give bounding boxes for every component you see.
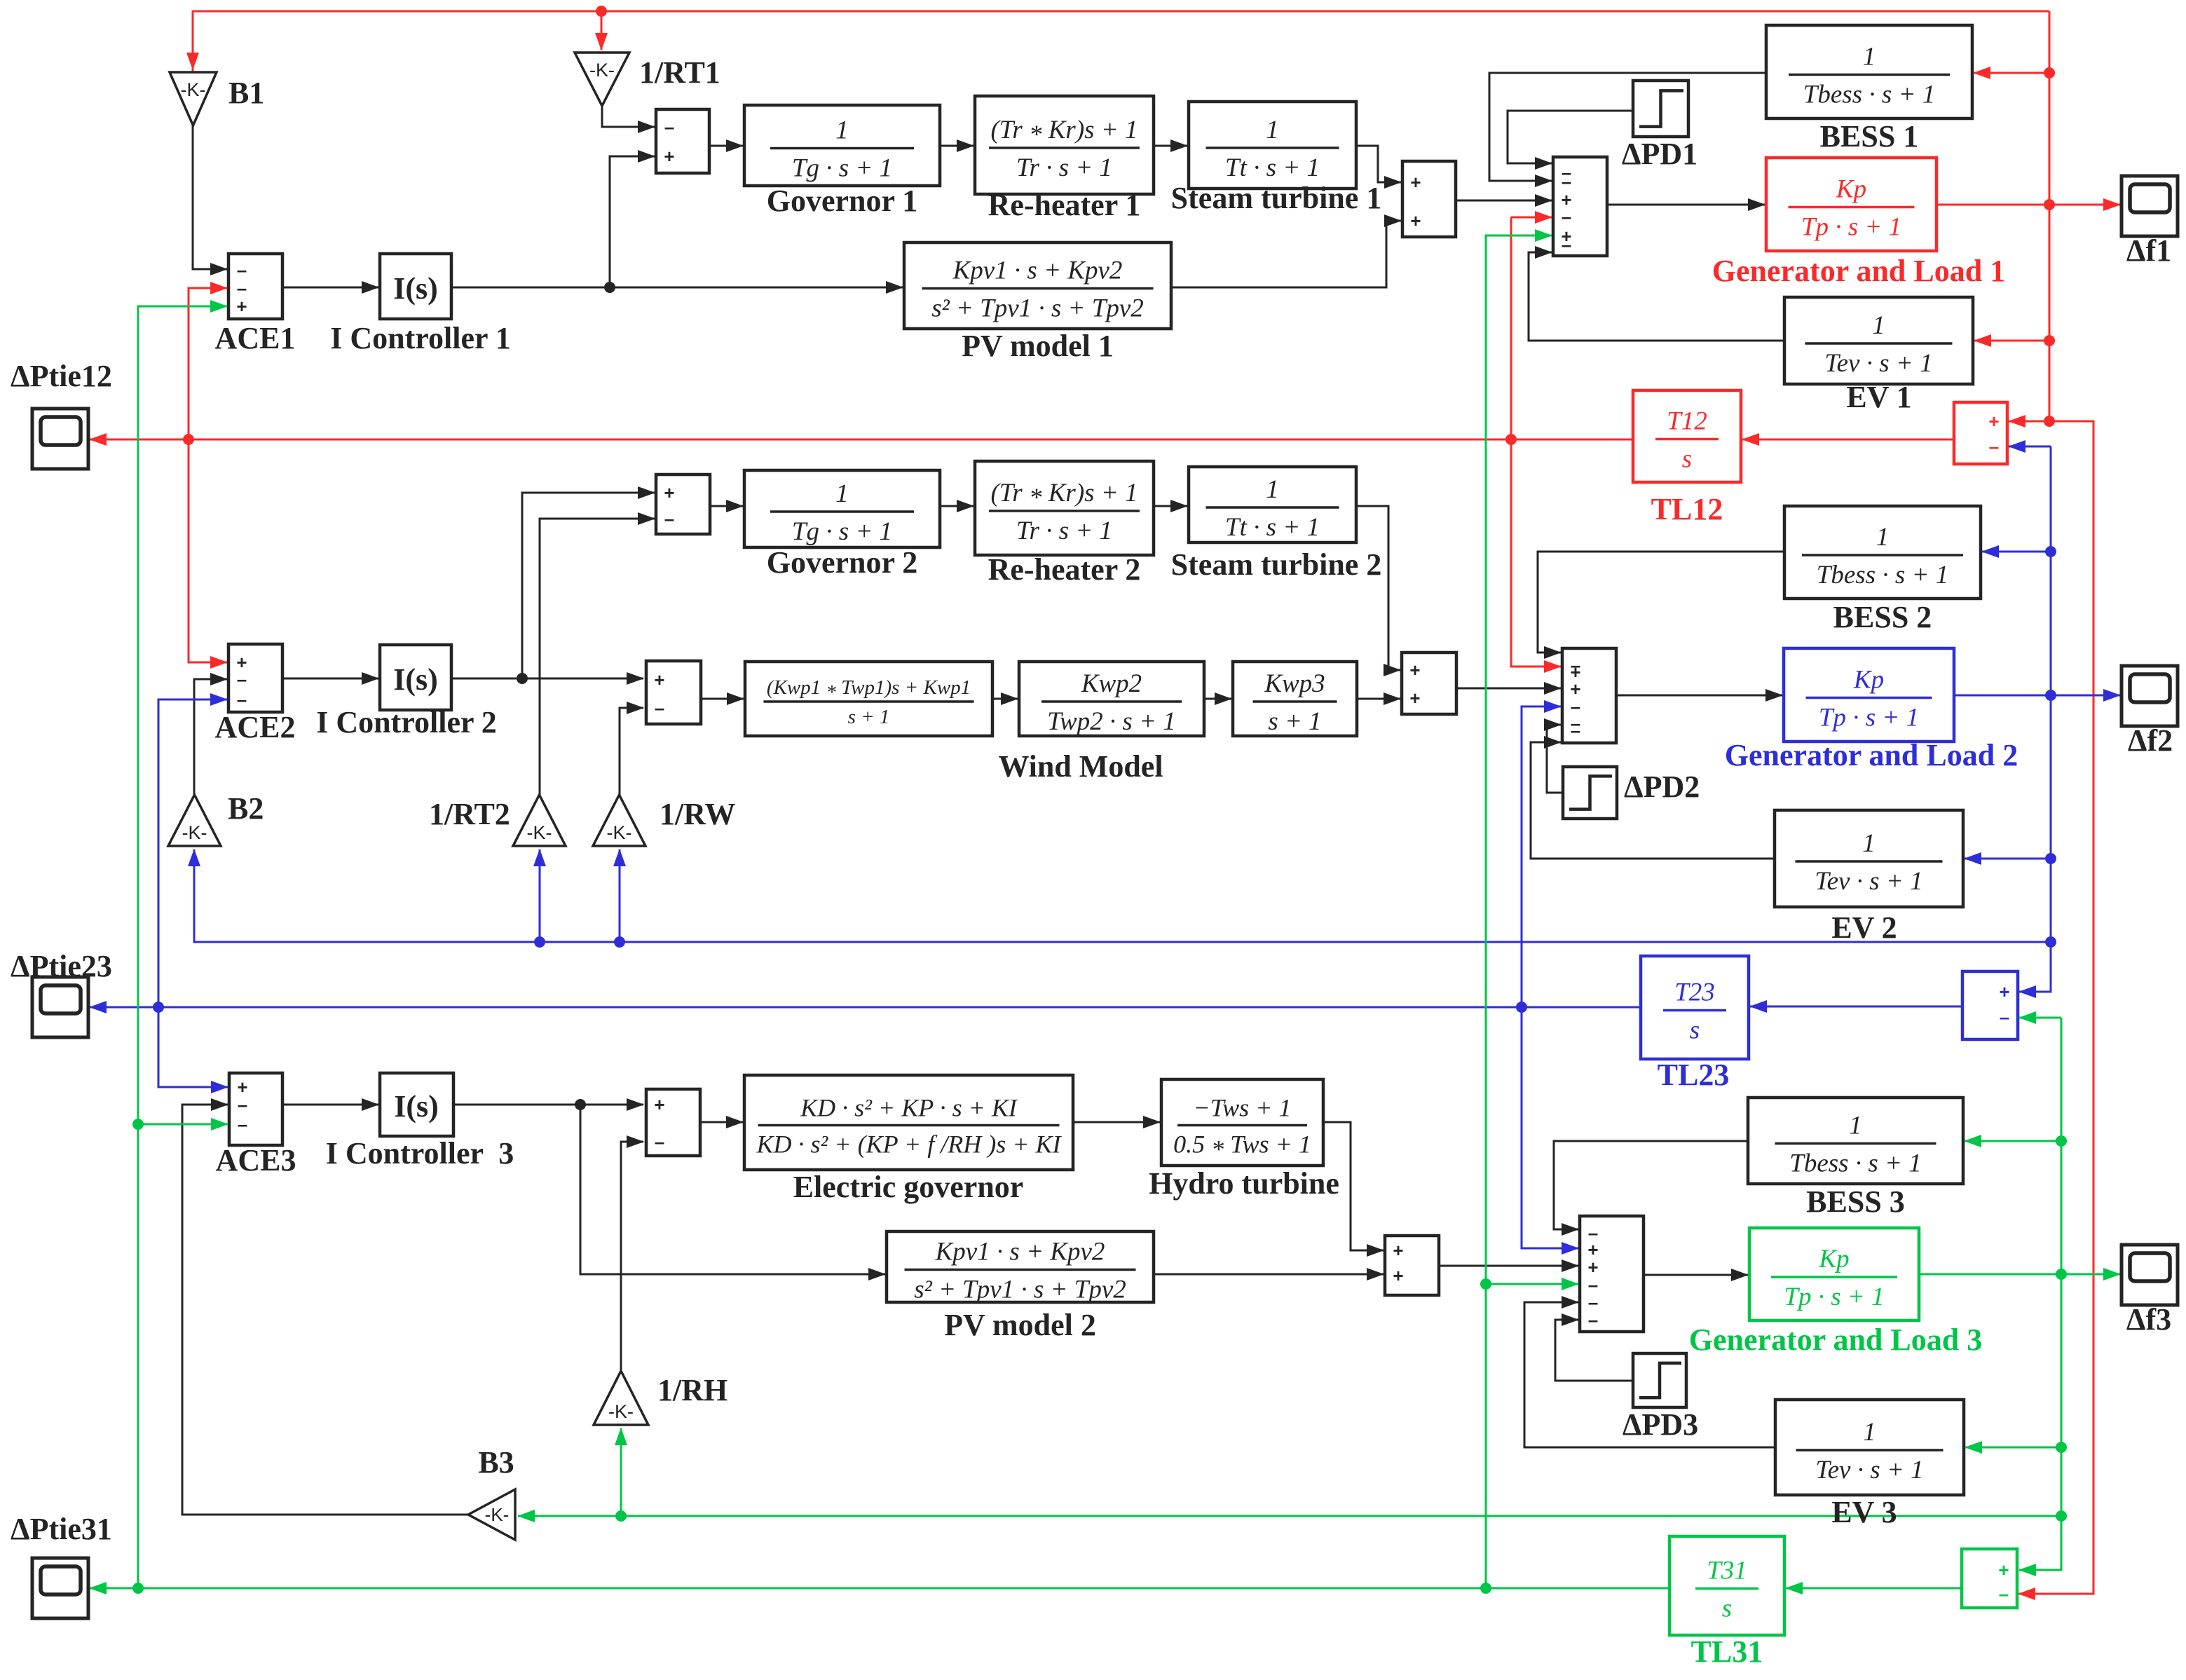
svg-text:s + 1: s + 1 xyxy=(848,706,890,728)
label Generator and Load 2 xyxy=(1725,738,2018,772)
svg-text:+: + xyxy=(1999,981,2009,1002)
wire Steam turbine 2 to sum S2b xyxy=(1356,506,1400,670)
svg-text:1/RT2: 1/RT2 xyxy=(429,797,510,831)
label Df1 xyxy=(2126,233,2171,268)
svg-text:ΔPD3: ΔPD3 xyxy=(1623,1407,1698,1442)
wire sum S1a to Governor 1 xyxy=(709,145,743,147)
wire I Controller 3 to hydro sum xyxy=(453,1104,643,1106)
svg-text:Tbess · s + 1: Tbess · s + 1 xyxy=(1817,561,1948,589)
svg-text:EV 3: EV 3 xyxy=(1831,1495,1897,1529)
sum TL12 tie sum xyxy=(1954,402,2007,464)
block DPD2 step xyxy=(1563,767,1617,819)
svg-text:ACE1: ACE1 xyxy=(215,321,296,355)
block Generator and Load 2 xyxy=(1784,648,1954,742)
wire green branch to ACE3 minus xyxy=(138,1124,228,1126)
svg-text:1: 1 xyxy=(1862,829,1876,858)
label 1/RT1 xyxy=(639,55,720,90)
node junction Df1 on red vertical xyxy=(2044,199,2055,210)
wire I Controller 2 to wind sum xyxy=(451,678,643,680)
label DPD3 xyxy=(1623,1407,1698,1442)
wire sum SA1 to Generator and Load 1 xyxy=(1607,204,1765,206)
wire green into BESS 3 xyxy=(1965,1140,2061,1142)
svg-text:1: 1 xyxy=(1872,311,1885,340)
gain 1/RH triangle xyxy=(594,1371,648,1425)
svg-text:1: 1 xyxy=(1876,523,1890,552)
block EV 3 xyxy=(1775,1400,1964,1529)
wire DPD1 to sum SA1 xyxy=(1508,111,1633,163)
svg-text:1: 1 xyxy=(1863,1418,1876,1447)
svg-text:+: + xyxy=(654,1094,664,1115)
wire Re-heater 1 to Steam turbine 1 xyxy=(1154,145,1187,147)
scope Df3 xyxy=(2122,1245,2178,1305)
svg-text:Kpv1 · s + Kpv2: Kpv1 · s + Kpv2 xyxy=(952,257,1123,285)
label DPD1 xyxy=(1622,137,1697,171)
label TL12 xyxy=(1651,492,1723,526)
sum TL31 tie sum xyxy=(1962,1549,2017,1608)
block DPD1 step xyxy=(1633,81,1688,137)
wire sum S3a to Electric governor xyxy=(700,1121,743,1124)
node junction green 1/RH branch xyxy=(615,1510,627,1522)
gain B1 triangle xyxy=(170,72,217,125)
sum S2a governor2 input xyxy=(656,474,710,534)
wire blue into TL12 minus xyxy=(2009,446,2051,448)
wire TL31 output line to scope DPtie31 xyxy=(90,1587,1669,1590)
wire DPD3 to sum SA3 xyxy=(1555,1320,1633,1381)
svg-text:T12: T12 xyxy=(1667,407,1707,436)
label B3 xyxy=(478,1445,514,1480)
wire red into BESS 1 xyxy=(1974,72,2049,74)
block Electric governor xyxy=(744,1075,1073,1204)
svg-text:-K-: -K- xyxy=(527,822,552,843)
wire red vertical right area1 xyxy=(2049,11,2051,421)
svg-text:-K-: -K- xyxy=(589,60,615,81)
svg-text:ACE2: ACE2 xyxy=(215,710,296,744)
node junction green to ACE3 xyxy=(132,1119,144,1130)
wire Generator and Load 3 to scope Df3 xyxy=(1919,1273,2120,1276)
svg-text:B3: B3 xyxy=(478,1445,514,1480)
svg-text:ΔPD2: ΔPD2 xyxy=(1624,770,1700,804)
label B1 xyxy=(228,76,264,110)
wire BESS 3 output to sum SA3 xyxy=(1554,1141,1748,1229)
svg-text:-K-: -K- xyxy=(182,822,207,843)
svg-text:s: s xyxy=(1690,1016,1700,1045)
svg-text:I(s): I(s) xyxy=(393,662,438,697)
node junction green BESS3 xyxy=(2056,1135,2067,1147)
svg-text:–: – xyxy=(1562,206,1571,227)
svg-text:–: – xyxy=(655,697,664,718)
wire Generator and Load 2 to scope Df2 xyxy=(1954,695,2120,697)
svg-text:Tev · s + 1: Tev · s + 1 xyxy=(1815,867,1922,896)
svg-text:1: 1 xyxy=(835,479,849,508)
sum S3b hydro plus PV xyxy=(1385,1236,1439,1295)
gain B2 triangle xyxy=(168,795,221,846)
label 1/RH xyxy=(657,1373,727,1407)
svg-text:PV model 1: PV model 1 xyxy=(962,329,1114,363)
svg-text:−Tws + 1: −Tws + 1 xyxy=(1194,1094,1292,1122)
wire DPD2 to sum SA2 xyxy=(1547,725,1563,793)
svg-text:1/RW: 1/RW xyxy=(660,797,735,831)
wire blue into BESS 2 xyxy=(1982,551,2051,553)
svg-text:0.5 * Tws + 1: 0.5 * Tws + 1 xyxy=(1173,1131,1311,1163)
svg-text:–: – xyxy=(664,116,674,137)
wire green feedback line area3 xyxy=(518,1515,2061,1517)
wire red TL12 plus input xyxy=(2009,421,2049,423)
svg-text:Δf2: Δf2 xyxy=(2128,723,2173,758)
svg-text:B1: B1 xyxy=(228,76,264,110)
svg-text:ACE3: ACE3 xyxy=(216,1143,296,1177)
svg-text:T23: T23 xyxy=(1674,978,1715,1007)
svg-text:–: – xyxy=(1999,1583,2009,1604)
svg-text:I Controller 1: I Controller 1 xyxy=(330,321,510,355)
wire Re-heater 2 to Steam turbine 2 xyxy=(1154,505,1187,507)
wire B2 output to ACE2 xyxy=(194,679,227,795)
wire blue x2171 down to SA3 plus xyxy=(1522,1007,1578,1248)
wire green x2120 up to SA1 and SA3 xyxy=(1486,235,1552,1588)
svg-text:Tg · s + 1: Tg · s + 1 xyxy=(792,517,892,546)
block Re-heater 2 xyxy=(975,461,1154,587)
wire top red feedback line (Df1 to B1 and 1/RT1) xyxy=(193,11,2049,72)
label Wind Model xyxy=(998,749,1163,784)
wire green into 1/RH xyxy=(620,1428,622,1516)
block Steam turbine 1 xyxy=(1171,102,1382,215)
svg-text:I(s): I(s) xyxy=(393,271,438,306)
label Df2 xyxy=(2128,723,2173,758)
svg-text:Kwp2: Kwp2 xyxy=(1081,669,1142,698)
svg-text:ΔPtie31: ΔPtie31 xyxy=(11,1512,112,1546)
svg-text:–: – xyxy=(655,1131,664,1152)
wire ACE1 to I Controller 1 xyxy=(282,287,378,289)
svg-text:s² + Tpv1 · s + Tpv2: s² + Tpv1 · s + Tpv2 xyxy=(931,294,1144,323)
svg-text:KD · s² + (KP + f /RH )s + KI: KD · s² + (KP + f /RH )s + KI xyxy=(756,1131,1062,1159)
label 1/RW xyxy=(660,797,735,831)
label Generator and Load 1 xyxy=(1712,254,2005,288)
svg-text:Wind Model: Wind Model xyxy=(998,749,1163,784)
block Steam turbine 2 xyxy=(1171,467,1382,582)
scope DPtie23 xyxy=(32,977,88,1037)
svg-text:+: + xyxy=(664,482,674,503)
block BESS 3 xyxy=(1748,1098,1963,1219)
svg-text:1: 1 xyxy=(1863,43,1876,71)
label ACE3 xyxy=(216,1143,296,1177)
svg-text:I Controller 2: I Controller 2 xyxy=(316,705,496,739)
node junction blue BESS2 xyxy=(2045,546,2056,557)
svg-text:Steam turbine 2: Steam turbine 2 xyxy=(1171,547,1382,582)
block wind Kwp2 xyxy=(1019,662,1204,736)
svg-text:Tg · s + 1: Tg · s + 1 xyxy=(792,154,892,183)
svg-text:EV 1: EV 1 xyxy=(1846,380,1911,414)
svg-text:Electric governor: Electric governor xyxy=(793,1170,1024,1204)
scope Df1 xyxy=(2122,176,2178,236)
svg-text:+: + xyxy=(1988,411,1999,432)
svg-text:–: – xyxy=(238,1114,247,1135)
svg-text:-K-: -K- xyxy=(608,1401,634,1422)
svg-text:I Controller 3: I Controller 3 xyxy=(326,1136,514,1170)
svg-text:Generator and Load 1: Generator and Load 1 xyxy=(1712,254,2005,288)
label TL23 xyxy=(1658,1058,1730,1092)
svg-text:Tt · s + 1: Tt · s + 1 xyxy=(1225,153,1320,182)
wire TL12 output line to scope DPtie12 xyxy=(90,439,1633,441)
wire blue into 1/RT2 xyxy=(539,849,541,942)
svg-text:Tev · s + 1: Tev · s + 1 xyxy=(1815,1456,1923,1484)
wire red to far right vertical xyxy=(2018,421,2093,1594)
wire red x269 down to ACE2 xyxy=(189,439,227,662)
sum S2b steam plus wind xyxy=(1402,653,1456,714)
wire TL23 output line to scope DPtie23 xyxy=(90,1006,1641,1009)
svg-text:Tev · s + 1: Tev · s + 1 xyxy=(1824,349,1932,378)
wire green x197 up to ACE1 xyxy=(138,306,227,1588)
node junction Df2 on blue vertical xyxy=(2045,690,2056,701)
wire sum SA2 to Generator and Load 2 xyxy=(1616,695,1782,697)
svg-text:s: s xyxy=(1682,445,1692,474)
wire BESS 2 output to sum SA2 xyxy=(1538,552,1784,653)
svg-text:Tbess · s + 1: Tbess · s + 1 xyxy=(1789,1149,1921,1178)
svg-text:–: – xyxy=(237,689,247,710)
wire blue x2171 up to SA2 minus xyxy=(1522,706,1561,1007)
svg-text:Steam turbine 1: Steam turbine 1 xyxy=(1171,181,1382,215)
block BESS 1 xyxy=(1766,25,1972,153)
svg-text:s + 1: s + 1 xyxy=(1268,707,1321,736)
wire Governor 2 to Re-heater 2 xyxy=(940,505,974,507)
block TL23 xyxy=(1641,956,1749,1059)
wire blue x226 down to ACE3 xyxy=(158,1007,228,1087)
wire green into EV 3 xyxy=(1965,1447,2061,1449)
svg-text:1/RH: 1/RH xyxy=(657,1373,727,1407)
block Governor 1 xyxy=(744,105,940,218)
block ACE3 sum xyxy=(229,1073,282,1145)
svg-text:+: + xyxy=(1410,172,1421,193)
svg-text:Re-heater 2: Re-heater 2 xyxy=(988,552,1141,587)
svg-text:Tbess · s + 1: Tbess · s + 1 xyxy=(1803,81,1935,109)
label TL31 xyxy=(1691,1634,1763,1669)
svg-text:EV 2: EV 2 xyxy=(1831,910,1897,945)
svg-text:+: + xyxy=(654,669,664,690)
svg-text:TL12: TL12 xyxy=(1651,492,1723,526)
svg-text:(Tr * Kr)s + 1: (Tr * Kr)s + 1 xyxy=(990,479,1138,512)
wire Electric governor to Hydro turbine xyxy=(1073,1121,1160,1124)
wire I Controller 1 to PV model 1 xyxy=(451,287,903,289)
svg-text:ΔPtie23: ΔPtie23 xyxy=(11,949,112,983)
wire 1/RT1 output to sum S1a minus xyxy=(602,106,655,127)
block ACE1 sum xyxy=(228,254,282,319)
svg-text:BESS 1: BESS 1 xyxy=(1820,119,1919,153)
sum S3a electric governor input xyxy=(646,1089,700,1156)
label Generator and Load 3 xyxy=(1689,1323,1982,1357)
wire blue feedback line area2 xyxy=(194,849,2051,942)
svg-text:-K-: -K- xyxy=(181,79,206,100)
node junction red TL12 plus xyxy=(2044,416,2055,427)
svg-text:–: – xyxy=(237,669,247,690)
label I Controller 1 xyxy=(330,321,510,355)
svg-text:Generator and Load 2: Generator and Load 2 xyxy=(1725,738,2018,772)
svg-text:+: + xyxy=(1393,1240,1403,1261)
label ACE1 xyxy=(215,321,296,355)
block I Controller 2 xyxy=(380,645,451,710)
svg-text:s: s xyxy=(1722,1594,1732,1623)
svg-text:-K-: -K- xyxy=(485,1504,510,1525)
wire red x269 up to ACE1 xyxy=(189,288,227,439)
label DPtie23 xyxy=(11,949,112,983)
wire Steam turbine 1 to sum S1b xyxy=(1356,146,1401,182)
sum SA2 area2 main sum xyxy=(1562,648,1616,743)
svg-text:Tr · s + 1: Tr · s + 1 xyxy=(1016,153,1112,182)
node junction blue EV2 xyxy=(2045,853,2056,864)
sum S1b turbine plus PV xyxy=(1402,161,1456,237)
svg-text:TL23: TL23 xyxy=(1658,1058,1730,1092)
block PV model 2 xyxy=(887,1231,1154,1342)
svg-text:Tp · s + 1: Tp · s + 1 xyxy=(1784,1283,1884,1311)
node junction red EV1 xyxy=(2044,335,2055,346)
block I Controller 3 xyxy=(380,1073,453,1136)
svg-text:Kp: Kp xyxy=(1818,1245,1849,1273)
block Re-heater 1 xyxy=(975,96,1154,222)
wire EV 3 output to sum SA3 xyxy=(1524,1302,1775,1447)
block TL31 xyxy=(1669,1536,1784,1635)
svg-text:–: – xyxy=(1571,720,1580,741)
svg-text:ΔPtie12: ΔPtie12 xyxy=(11,359,112,393)
wire blue vertical right area2 xyxy=(2019,446,2051,992)
svg-text:1/RT1: 1/RT1 xyxy=(639,55,720,90)
svg-text:+: + xyxy=(1393,1265,1403,1286)
wire EV 2 output to sum SA2 xyxy=(1531,742,1775,859)
wire red drop into 1/RT1 xyxy=(601,11,603,50)
svg-text:Tp · s + 1: Tp · s + 1 xyxy=(1819,704,1919,732)
svg-text:–: – xyxy=(1989,436,1999,457)
svg-text:Δf1: Δf1 xyxy=(2126,233,2171,268)
node junction I3 output xyxy=(575,1099,586,1110)
svg-text:s² + Tpv1 · s + Tpv2: s² + Tpv1 · s + Tpv2 xyxy=(914,1276,1126,1304)
wire Hydro turbine to sum S3b xyxy=(1323,1122,1384,1250)
gain 1/RT2 triangle xyxy=(513,795,566,846)
svg-text:BESS 3: BESS 3 xyxy=(1806,1184,1905,1219)
label I Controller 2 xyxy=(316,705,496,739)
block Governor 2 xyxy=(744,470,940,580)
wire sum S3b to big sum SA3 xyxy=(1439,1265,1578,1267)
wire blue into EV 2 xyxy=(1965,858,2051,860)
svg-text:1: 1 xyxy=(1266,116,1279,144)
svg-text:PV model 2: PV model 2 xyxy=(944,1308,1096,1342)
wire wind sum to wind model 1 xyxy=(701,698,744,700)
wire ACE3 to I Controller 3 xyxy=(282,1104,378,1106)
label I Controller 3 xyxy=(326,1136,514,1170)
svg-text:+: + xyxy=(664,146,674,167)
svg-text:Δf3: Δf3 xyxy=(2126,1302,2171,1337)
block PV model 1 xyxy=(904,243,1171,363)
block wind Kwp3 xyxy=(1233,662,1357,736)
gain 1/RW triangle xyxy=(593,795,645,846)
wire red into EV 1 xyxy=(1974,340,2049,342)
node junction blue feedback line xyxy=(2045,936,2056,948)
svg-text:+: + xyxy=(236,296,247,317)
scope DPtie31 xyxy=(32,1558,88,1618)
wire Kwp3 to sum S2b xyxy=(1357,698,1400,700)
block EV 1 xyxy=(1784,297,1973,414)
svg-text:Generator and Load 3: Generator and Load 3 xyxy=(1689,1323,1982,1357)
svg-text:B2: B2 xyxy=(228,791,264,826)
scope DPtie12 xyxy=(32,409,88,469)
sum TL23 tie sum xyxy=(1962,971,2018,1039)
node junction TL31 line left branch xyxy=(132,1583,144,1594)
svg-text:–: – xyxy=(1562,234,1571,255)
wire ACE2 to I Controller 2 xyxy=(282,678,378,680)
block I Controller 1 xyxy=(380,254,451,319)
wire B1 output to ACE1 xyxy=(193,125,227,269)
node junction TL12 line to area sums xyxy=(1505,434,1517,445)
wire BESS 1 output to sum SA1 xyxy=(1489,73,1766,181)
scope Df2 xyxy=(2122,666,2178,726)
label B2 xyxy=(228,791,264,826)
node junction blue 1/RW xyxy=(614,936,625,948)
wire green vertical right area3 xyxy=(2019,1018,2061,1570)
svg-text:–: – xyxy=(1588,1309,1598,1330)
svg-text:–: – xyxy=(2000,1006,2009,1027)
svg-text:1: 1 xyxy=(1849,1112,1862,1140)
svg-text:1: 1 xyxy=(835,116,849,145)
block ACE2 sum xyxy=(228,644,282,712)
wire red vertical x2156 to SA1 and SA2 xyxy=(1511,217,1561,667)
wire branch down to PV model 2 xyxy=(580,1105,885,1274)
wire blue into 1/RW xyxy=(619,849,621,942)
wire B3 output to ACE3 xyxy=(182,1105,468,1515)
wire sum S2a to Governor 2 xyxy=(710,505,743,507)
wire 1/RW output to wind sum minus xyxy=(620,708,643,795)
svg-text:+: + xyxy=(1409,688,1420,709)
svg-text:Re-heater 1: Re-heater 1 xyxy=(988,188,1141,222)
svg-text:KD · s² + KP · s + KI: KD · s² + KP · s + KI xyxy=(800,1094,1018,1122)
wire Generator and Load 1 to scope Df1 xyxy=(1936,204,2120,206)
sum S1a governor input xyxy=(656,109,709,173)
wire 1/RH output to sum S3a minus xyxy=(621,1142,643,1371)
block Generator and Load 1 xyxy=(1766,158,1936,251)
svg-text:ΔPD1: ΔPD1 xyxy=(1622,137,1697,171)
svg-text:I(s): I(s) xyxy=(394,1089,439,1124)
wire wind1 to Kwp2 xyxy=(992,698,1018,700)
node junction TL12 line to ACEs xyxy=(183,434,194,445)
label DPtie31 xyxy=(11,1512,112,1546)
wire TL31 sum to TL31 block xyxy=(1786,1587,1962,1590)
node junction I1 output branch xyxy=(604,282,615,293)
node junction green feedback xyxy=(2056,1510,2067,1522)
label ACE2 xyxy=(215,710,296,744)
wire sum S2b to big sum SA2 xyxy=(1456,688,1561,690)
wire branch up to sum S1a plus xyxy=(610,156,655,287)
svg-text:TL31: TL31 xyxy=(1691,1634,1763,1669)
node junction Df3 on green vertical xyxy=(2056,1269,2067,1280)
svg-text:Governor 1: Governor 1 xyxy=(767,184,918,218)
wire TL23 sum to TL23 block xyxy=(1750,1006,1962,1008)
label Df3 xyxy=(2126,1302,2171,1337)
svg-text:Governor 2: Governor 2 xyxy=(767,545,918,580)
svg-text:Tr · s + 1: Tr · s + 1 xyxy=(1016,517,1112,545)
block Hydro turbine xyxy=(1149,1079,1339,1201)
wire 1/RT2 output to sum S2a minus xyxy=(540,519,655,795)
node junction TL23 line right branch xyxy=(1516,1002,1527,1013)
node junction TL31 line right branch xyxy=(1480,1583,1491,1594)
block DPD3 step xyxy=(1633,1353,1686,1407)
node junction green EV3 xyxy=(2056,1442,2067,1453)
wire PV model 2 to sum S3b xyxy=(1154,1273,1384,1276)
wire Kwp2 to Kwp3 xyxy=(1204,698,1231,700)
svg-text:1: 1 xyxy=(1266,475,1279,504)
node junction red BESS1 xyxy=(2044,67,2055,78)
wire green into TL23 minus xyxy=(2019,1017,2061,1019)
wire blue x226 up to ACE2 xyxy=(158,699,227,1007)
node junction TL23 line left branch xyxy=(153,1002,164,1013)
sum SA1 area1 main sum xyxy=(1553,157,1607,256)
svg-text:BESS 2: BESS 2 xyxy=(1833,600,1932,634)
svg-text:T31: T31 xyxy=(1707,1557,1747,1585)
svg-text:-K-: -K- xyxy=(607,822,632,843)
wire sum S1b to big sum SA1 xyxy=(1456,200,1552,202)
